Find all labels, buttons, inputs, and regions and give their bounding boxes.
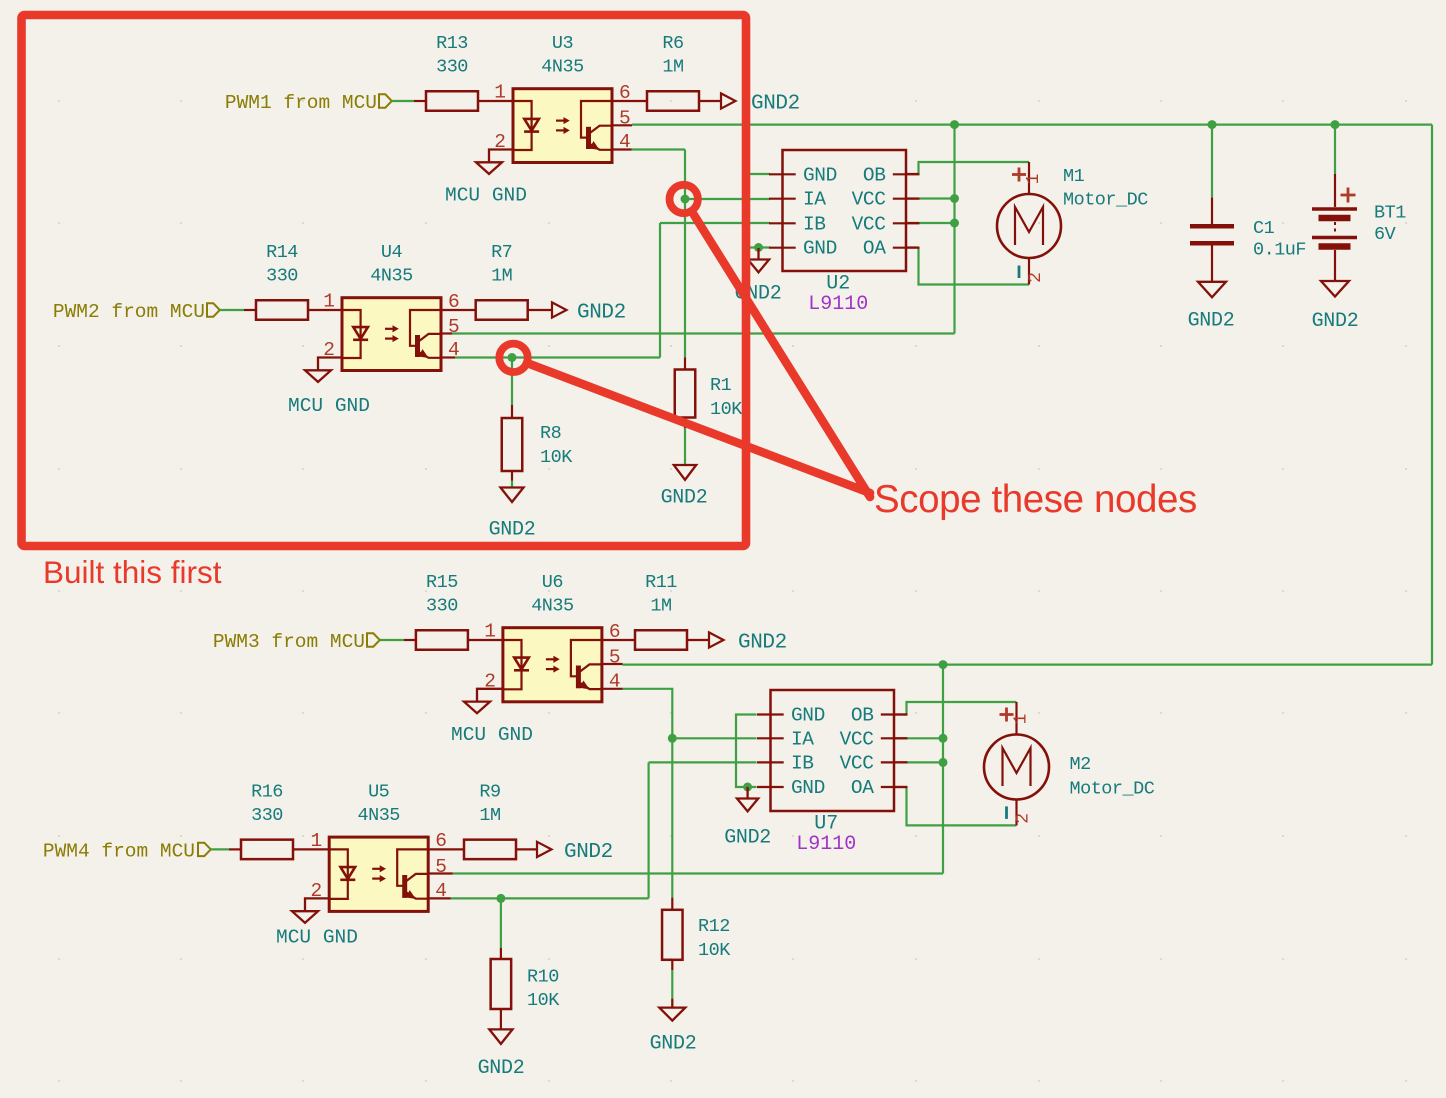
wire U6 pin5 stub (600, 663, 622, 665)
hierarchical label arrow PWM1 (379, 94, 392, 107)
svg-text:IB: IB (791, 752, 814, 774)
svg-text:PWM3 from MCU: PWM3 from MCU (213, 631, 365, 653)
svg-text:PWM1 from MCU: PWM1 from MCU (225, 92, 377, 114)
wire U2 VCC stub lower red (906, 222, 919, 224)
svg-text:BT1: BT1 (1374, 203, 1406, 224)
wire U7 VCC stub upper (907, 737, 943, 739)
motor M1 minus sign (1018, 266, 1021, 279)
svg-text:OA: OA (851, 777, 874, 799)
wire U2 VCC stub upper red (906, 197, 919, 199)
svg-text:C1: C1 (1253, 218, 1275, 239)
wire U2 OB stub (906, 173, 919, 175)
svg-text:330: 330 (266, 266, 298, 287)
junction node B (508, 353, 517, 362)
svg-text:330: 330 (251, 805, 283, 826)
wire pin2 to ground (477, 689, 503, 702)
svg-text:VCC: VCC (852, 213, 886, 235)
motor M1 plus sign (1012, 173, 1026, 176)
resistor R9 (464, 840, 516, 860)
phototransistor inside U3 (581, 101, 612, 138)
wire U2 GND stub bottom (745, 246, 770, 248)
pin wire of R14 (244, 309, 256, 311)
annotation circle node A (670, 185, 698, 213)
resistor R6 (647, 91, 699, 111)
pin IB left (U7) (757, 761, 784, 763)
svg-text:M2: M2 (1070, 754, 1091, 775)
junction rail2 x943 (939, 660, 948, 669)
wire U5 pin4 stub (429, 897, 451, 899)
motor M2 pin 1 wire (1015, 702, 1017, 735)
svg-text:330: 330 (426, 596, 458, 617)
ground GND2 symbol (746, 787, 748, 799)
wire node A vertical (684, 150, 686, 200)
svg-text:1M: 1M (491, 266, 512, 287)
junction BT1 at rail (1331, 120, 1340, 129)
LED inside U6 (503, 640, 522, 689)
wire node A to U2 IA (685, 198, 770, 200)
svg-text:U3: U3 (552, 33, 573, 54)
resistor R13 (426, 91, 478, 111)
pin wire BT1 bottom (1334, 250, 1336, 281)
pin wire R10 top (500, 948, 502, 959)
pin wire R10 bottom (500, 1009, 502, 1029)
global label GND2 flag (709, 632, 724, 647)
motor M1 M glyph (1015, 207, 1043, 245)
wire U2 OA to M1 (919, 248, 1030, 285)
svg-text:330: 330 (436, 57, 468, 78)
svg-text:Scope these nodes: Scope these nodes (874, 478, 1197, 521)
global label GND2 flag (721, 93, 736, 108)
junction U2 VCC pin lower (950, 219, 959, 228)
phototransistor inside U6 (571, 640, 602, 676)
svg-text:R13: R13 (436, 33, 468, 54)
IC U7 L9110 body (771, 690, 895, 811)
IC U2 L9110 body (783, 150, 907, 271)
svg-text:10K: 10K (698, 940, 731, 961)
wire R6 to GND2 flag (699, 100, 721, 102)
wire U7 IA node down to R12 (671, 738, 673, 897)
ground MCU GND symbol (292, 911, 318, 923)
svg-text:R7: R7 (491, 242, 512, 263)
svg-text:R12: R12 (698, 916, 730, 937)
svg-text:Motor_DC: Motor_DC (1063, 190, 1148, 211)
svg-text:OA: OA (863, 238, 886, 260)
global label GND2 flag (552, 302, 567, 317)
wire U3 pin4 stub (612, 148, 632, 150)
motor M1 pin 1 wire (1028, 162, 1030, 194)
svg-text:GND2: GND2 (738, 632, 787, 655)
svg-text:1M: 1M (479, 805, 500, 826)
wire U3 pin5 stub (612, 124, 632, 126)
wire U4 pin4 stub (440, 356, 455, 358)
pin GND left (U7) (757, 713, 784, 715)
wire R12 bottom to ground (671, 970, 673, 999)
resistor R12 (662, 910, 683, 960)
wire (392, 100, 414, 102)
wire pin2 to ground (318, 358, 342, 371)
wire U2 IB vertical (659, 223, 661, 358)
pin VCC right (U7) (881, 737, 908, 739)
svg-text:GND2: GND2 (1312, 310, 1359, 333)
pin wire of R16 (229, 848, 241, 850)
resistor R8 (502, 418, 523, 471)
wire U2 GND stub top (744, 173, 770, 175)
svg-text:R10: R10 (527, 967, 559, 988)
wire U7 IB to pin (649, 761, 757, 763)
ground GND2 symbol (489, 1029, 512, 1044)
light arrows inside U5 (372, 868, 381, 870)
wire VCC rail right vertical (1431, 125, 1433, 665)
pin IA left (U2) (769, 198, 796, 200)
svg-text:4N35: 4N35 (370, 266, 412, 287)
wire BT1 drop (1334, 125, 1336, 174)
ground MCU GND symbol (476, 162, 502, 174)
svg-text:U5: U5 (368, 781, 389, 802)
pin wire C1 bottom (1211, 245, 1213, 282)
pin GND left (U2) (769, 173, 796, 175)
ground GND2 symbol (1321, 281, 1349, 297)
light arrows inside U3 (556, 119, 565, 121)
svg-text:4N35: 4N35 (531, 596, 573, 617)
junction C1 at rail (1208, 120, 1217, 129)
svg-text:1: 1 (494, 82, 506, 104)
svg-text:MCU GND: MCU GND (288, 395, 370, 417)
svg-text:VCC: VCC (852, 189, 886, 211)
svg-text:MCU GND: MCU GND (276, 927, 358, 949)
hierarchical label arrow PWM4 (198, 843, 211, 856)
wire U7 GND loop (736, 715, 757, 788)
svg-text:GND2: GND2 (650, 1032, 697, 1055)
pin wire R1 bottom (684, 418, 686, 429)
svg-text:10K: 10K (540, 447, 573, 468)
ground GND2 symbol (671, 999, 673, 1008)
wire U7 OA to M2 (907, 787, 1017, 825)
wire U6 pin4 to U7 IA (623, 689, 673, 739)
motor M2 plus sign (1000, 713, 1014, 716)
wire R8 bottom to ground (511, 480, 513, 487)
junction node C (496, 894, 505, 903)
svg-text:Built this first: Built this first (43, 554, 222, 590)
svg-text:M1: M1 (1063, 166, 1085, 187)
svg-text:R15: R15 (426, 572, 458, 593)
wire U7 IB riser (647, 762, 649, 898)
wire U2 OA stub (906, 246, 919, 248)
wire VCC drop vertical x943 (942, 665, 944, 874)
svg-text:2: 2 (1026, 272, 1046, 283)
svg-text:R14: R14 (266, 242, 298, 263)
svg-text:GND: GND (803, 238, 837, 260)
ground GND2 symbol (674, 465, 696, 480)
svg-text:10K: 10K (527, 990, 560, 1011)
svg-text:IA: IA (791, 728, 814, 750)
svg-text:U4: U4 (381, 242, 403, 263)
wire (220, 309, 244, 311)
pin OB right (U2) (893, 173, 920, 175)
phototransistor inside U5 (397, 849, 428, 885)
wire U3 pin 6 to R6 (612, 100, 647, 102)
svg-text:L9110: L9110 (796, 833, 856, 856)
resistor R7 (476, 300, 528, 320)
motor M2 M glyph (1003, 748, 1031, 786)
wire U7 OB stub (894, 713, 907, 715)
wire pin2 to ground (305, 898, 329, 911)
light arrows inside U4 (385, 328, 394, 330)
pin OB right (U7) (881, 713, 908, 715)
wire pin2 to ground (489, 150, 513, 163)
global label GND2 flag (537, 842, 552, 857)
svg-text:GND2: GND2 (489, 519, 536, 542)
phototransistor inside U4 (410, 310, 441, 346)
wire U5 pin4 to U7 IB riser (451, 897, 649, 899)
wire VCC rail top (632, 123, 1432, 125)
optocoupler U6 body (503, 628, 602, 702)
pin wire R1 top (684, 358, 686, 370)
svg-text:PWM2 from MCU: PWM2 from MCU (53, 301, 205, 323)
svg-text:1: 1 (484, 621, 496, 643)
svg-text:VCC: VCC (840, 728, 874, 750)
motor M2 pin 2 wire (1015, 800, 1017, 826)
pin IA left (U7) (757, 737, 784, 739)
resistor R16 (241, 840, 293, 860)
wire U3 pin4 to node A (632, 148, 685, 150)
motor M1 body (997, 194, 1061, 258)
pin wire of R15 (404, 639, 416, 641)
wire U5 pin5 stub (429, 872, 453, 874)
annotation line from node A (694, 215, 870, 497)
svg-text:1M: 1M (662, 57, 683, 78)
junction VCC rail x954 (950, 120, 959, 129)
pin GND left (U7) (757, 786, 784, 788)
svg-text:6V: 6V (1374, 224, 1396, 245)
wire VCC rail lower (623, 663, 1433, 665)
wire U2 OB to M1 (919, 162, 1030, 174)
svg-text:1: 1 (310, 830, 322, 852)
wire U7 OA stub (894, 786, 907, 788)
LED inside U3 (513, 101, 532, 150)
svg-text:GND2: GND2 (751, 93, 800, 116)
svg-text:GND2: GND2 (661, 487, 708, 510)
junction U7 IA node (668, 734, 677, 743)
ground GND2 symbol (1198, 282, 1226, 298)
svg-text:R16: R16 (251, 781, 283, 802)
pin GND left (U2) (769, 247, 796, 249)
ground GND2 symbol (501, 488, 524, 503)
svg-text:10K: 10K (710, 399, 743, 420)
LED inside U4 (342, 310, 361, 358)
svg-text:4N35: 4N35 (357, 805, 399, 826)
wire R1 bottom to ground (684, 428, 686, 465)
pin wire R8 top (511, 405, 513, 418)
motor M1 pin 2 wire (1028, 258, 1030, 285)
svg-text:OB: OB (851, 705, 874, 727)
battery BT1 (1312, 207, 1357, 211)
junction U2 GND (754, 243, 763, 252)
svg-text:OB: OB (863, 164, 886, 186)
pin VCC right (U7) (881, 761, 908, 763)
motor M2 minus sign (1005, 806, 1008, 819)
svg-text:GND: GND (791, 777, 825, 799)
wire (380, 639, 404, 641)
wire R13 to U3 pin 1 (478, 100, 513, 102)
junction U7 GND (743, 783, 752, 792)
svg-text:GND2: GND2 (1188, 309, 1235, 332)
resistor R14 (256, 300, 308, 320)
wire U7 OB to M2 (907, 702, 1017, 715)
resistor R11 (635, 630, 687, 650)
wire U6 pin4 stub (600, 688, 622, 690)
wire node B down to R8 (511, 358, 513, 406)
wire U2 IB horizontal (660, 222, 770, 224)
pin wire BT1 top (1334, 174, 1336, 207)
annotation rectangle Built this first (22, 15, 747, 546)
svg-text:MCU GND: MCU GND (445, 185, 527, 207)
svg-text:1: 1 (1024, 174, 1044, 185)
wire U7 VCC stub lower red (894, 761, 907, 763)
pin wire R8 bottom (511, 471, 513, 481)
pin OA right (U7) (881, 786, 908, 788)
svg-text:L9110: L9110 (808, 293, 868, 316)
wire R15 to U6 pin 1 (468, 639, 503, 641)
resistor R15 (416, 630, 468, 650)
optocoupler U4 body (342, 298, 441, 371)
svg-text:U6: U6 (542, 572, 563, 593)
svg-text:IB: IB (803, 213, 826, 235)
wire U5 pin5 row to VCC drop (453, 872, 943, 874)
optocoupler U3 body (513, 89, 612, 163)
annotation circle node B (499, 344, 527, 372)
pin wire R12 top (671, 898, 673, 910)
junction U2 VCC pin upper (950, 194, 959, 203)
junction U7 VCC lower (939, 758, 948, 767)
ground MCU GND symbol (305, 370, 331, 382)
annotation line from node B (527, 363, 870, 493)
svg-text:1: 1 (323, 291, 335, 313)
wire R7 to GND2 flag (528, 309, 552, 311)
wire U4 pin5 to VCC drop (452, 332, 955, 334)
junction U7 VCC upper (939, 734, 948, 743)
pin wire C1 top (1211, 198, 1213, 225)
wire U7 IA node to pin (672, 737, 756, 739)
svg-text:GND2: GND2 (724, 827, 771, 850)
motor M2 body (984, 735, 1049, 800)
wire U7 VCC stub upper red (894, 737, 907, 739)
pin VCC right (U2) (893, 222, 920, 224)
svg-text:R1: R1 (710, 375, 732, 396)
svg-text:MCU GND: MCU GND (451, 724, 533, 746)
wire node C down to R10 (500, 898, 502, 948)
svg-text:GND2: GND2 (564, 841, 613, 864)
svg-text:R11: R11 (645, 572, 677, 593)
resistor R10 (491, 959, 512, 1009)
wire R14 to U4 pin 1 (308, 309, 342, 311)
svg-text:GND: GND (803, 164, 837, 186)
light arrows inside U6 (546, 658, 555, 660)
svg-text:4N35: 4N35 (541, 57, 583, 78)
svg-text:Motor_DC: Motor_DC (1070, 778, 1155, 799)
svg-text:IA: IA (803, 189, 826, 211)
hierarchical label arrow PWM2 (207, 303, 220, 316)
svg-text:2: 2 (1014, 813, 1034, 824)
wire R11 to GND2 flag (687, 639, 709, 641)
svg-text:R9: R9 (479, 781, 500, 802)
junction node A (681, 195, 690, 204)
capacitor C1 (1190, 224, 1234, 229)
pin VCC right (U2) (893, 198, 920, 200)
pin wire of R13 (414, 100, 426, 102)
pin IB left (U2) (769, 222, 796, 224)
pin OA right (U2) (893, 247, 920, 249)
svg-text:PWM4 from MCU: PWM4 from MCU (43, 840, 195, 862)
svg-text:R8: R8 (540, 423, 561, 444)
wire (211, 848, 229, 850)
svg-text:1: 1 (1012, 714, 1032, 725)
wire C1 drop (1211, 125, 1213, 198)
wire U2 VCC stub lower (919, 222, 955, 224)
ground MCU GND symbol (464, 702, 490, 714)
wire U4 pin4 row (455, 356, 660, 358)
svg-text:GND2: GND2 (577, 302, 626, 325)
wire U2 VCC stub upper (919, 197, 955, 199)
resistor R1 (675, 370, 696, 418)
wire R9 to GND2 flag (516, 848, 537, 850)
wire VCC drop vertical x954 (953, 125, 955, 334)
wire U5 pin 6 to R9 (428, 848, 464, 850)
hierarchical label arrow PWM3 (367, 633, 380, 646)
wire U7 VCC stub lower (907, 761, 943, 763)
wire U4 pin 6 to R7 (441, 309, 476, 311)
svg-text:1M: 1M (650, 596, 671, 617)
optocoupler U5 body (329, 837, 428, 911)
svg-text:R6: R6 (662, 33, 683, 54)
wire node A down to R1 (684, 199, 686, 358)
pin wire R12 bottom (671, 960, 673, 970)
wire U6 pin 6 to R11 (602, 639, 635, 641)
wire U4 pin5 stub (440, 332, 452, 334)
wire R16 to U5 pin 1 (293, 848, 329, 850)
svg-text:VCC: VCC (840, 752, 874, 774)
svg-text:GND: GND (791, 705, 825, 727)
svg-text:0.1uF: 0.1uF (1253, 240, 1306, 261)
svg-text:GND2: GND2 (478, 1057, 525, 1080)
battery BT1 plus sign (1341, 194, 1356, 197)
ground GND2 symbol (757, 248, 759, 260)
LED inside U5 (329, 849, 348, 899)
